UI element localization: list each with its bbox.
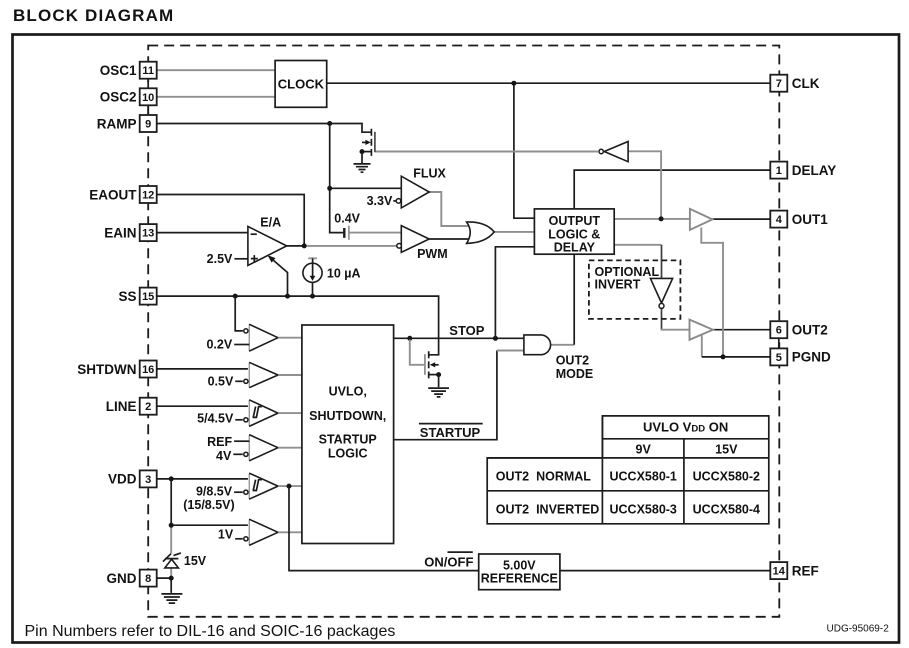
junction PGND node	[721, 354, 726, 359]
junction GND node	[169, 576, 174, 581]
pin 15 SS	[118, 288, 156, 305]
wire OUTPUT LOGIC block bottom to AND output	[573, 254, 575, 344]
svg-text:OUT2 NORMAL: OUT2 NORMAL	[496, 469, 592, 483]
pin 7 CLK	[770, 75, 819, 92]
svg-text:12: 12	[142, 190, 154, 202]
pin 4 OUT1	[770, 211, 828, 228]
svg-text:STARTUP: STARTUP	[319, 433, 377, 447]
node STARTUP label (active low)	[419, 424, 483, 440]
svg-text:EAIN: EAIN	[104, 225, 136, 240]
svg-text:SHUTDOWN,: SHUTDOWN,	[309, 409, 386, 423]
wire OUTPUT LOGIC block to optional inverter	[614, 244, 661, 246]
svg-text:UVLO,: UVLO,	[329, 385, 367, 399]
svg-text:1: 1	[776, 165, 782, 177]
comparator 0.2V (soft start)	[244, 324, 278, 351]
svg-text:8: 8	[145, 573, 151, 585]
svg-text:OUT1: OUT1	[792, 212, 828, 227]
svg-text:UVLO VDD ON: UVLO VDD ON	[643, 420, 728, 435]
junction SS to 0.2V comparator	[233, 294, 238, 299]
svg-text:2.5V: 2.5V	[207, 252, 233, 266]
wire OSC1 to CLOCK	[157, 69, 276, 71]
svg-text:10: 10	[142, 92, 154, 104]
junction RAMP node	[327, 121, 332, 126]
transistor M2 (soft-start discharge MOSFET)	[425, 351, 441, 387]
svg-text:4: 4	[776, 214, 783, 226]
pin 10 OSC2	[100, 88, 157, 105]
svg-text:OSC2: OSC2	[100, 90, 137, 105]
svg-text:UCCX580-1: UCCX580-1	[610, 469, 677, 483]
inverter U2 (delay inverter)	[599, 142, 628, 162]
wire inverter input from OUT1 line	[628, 151, 661, 219]
junction VDD node	[169, 476, 174, 481]
svg-text:0.5V: 0.5V	[208, 375, 234, 389]
svg-text:9V: 9V	[636, 443, 652, 457]
wire OUT2 buffer return to PGND	[701, 335, 703, 357]
junction VDD to 1V comparator	[169, 523, 174, 528]
wire LINE pin to 5/4.5V comparator	[157, 405, 248, 407]
svg-text:5/4.5V: 5/4.5V	[197, 412, 234, 426]
UVLO SHUTDOWN STARTUP LOGIC block	[302, 325, 394, 544]
wire OR gate output to OUTPUT LOGIC block	[494, 231, 534, 233]
svg-text:MODE: MODE	[556, 367, 594, 381]
value label 1V	[218, 528, 243, 542]
svg-text:OUT2: OUT2	[556, 353, 589, 367]
svg-text:REFERENCE: REFERENCE	[481, 572, 558, 586]
buffer OUT1 driver	[690, 209, 713, 230]
wire link between pin boxes 11-10-9	[148, 79, 779, 349]
svg-text:(15/8.5V): (15/8.5V)	[183, 498, 234, 512]
svg-text:9: 9	[145, 119, 151, 131]
svg-text:LOGIC: LOGIC	[328, 446, 368, 460]
wire M2 gate from STOP	[410, 340, 424, 365]
wire EAOUT pin to E/A output node	[157, 195, 305, 245]
pin 3 VDD	[108, 470, 157, 487]
ground at M2 source	[428, 388, 449, 397]
wire E/A output to PWM comparator - input	[304, 245, 397, 247]
svg-text:FLUX: FLUX	[413, 166, 446, 180]
wire ON/OFF net to 5.00V REFERENCE	[289, 486, 479, 570]
svg-text:EAOUT: EAOUT	[89, 187, 137, 202]
svg-text:ON/OFF: ON/OFF	[424, 555, 473, 570]
svg-text:10 µA: 10 µA	[327, 266, 361, 280]
AND gate OUT2 MODE	[524, 335, 593, 381]
svg-text:UDG-95069-2: UDG-95069-2	[827, 624, 890, 635]
wire CLK net: CLOCK output to pin 7	[327, 82, 770, 84]
svg-text:CLK: CLK	[792, 76, 820, 91]
wire OUT2 buffer output to pin 6	[713, 329, 770, 331]
svg-text:0.4V: 0.4V	[334, 212, 360, 226]
pin 14 REF	[770, 562, 819, 579]
wire AND gate lower input stub	[497, 350, 524, 352]
svg-text:UCCX580-3: UCCX580-3	[610, 502, 677, 516]
svg-text:15: 15	[142, 291, 154, 303]
transistor M1 (ramp discharge MOSFET)	[360, 129, 375, 163]
wire RAMP branch to FLUX comparator + input	[330, 187, 401, 189]
svg-text:REF: REF	[792, 563, 819, 578]
wire STOP net	[394, 337, 524, 339]
svg-text:CLOCK: CLOCK	[278, 77, 325, 92]
junction STOP to OUTPUT LOGIC	[493, 336, 498, 341]
wire VDD pin to 9/8.5V comparator	[158, 478, 248, 480]
ground at M1 source	[354, 164, 371, 172]
svg-text:OSC1: OSC1	[100, 63, 137, 78]
node ON/OFF label (OFF active low)	[424, 552, 473, 570]
junction 9/8.5V comparator output to ON/OFF	[287, 484, 292, 489]
svg-text:DELAY: DELAY	[792, 163, 837, 178]
svg-text:STOP: STOP	[449, 323, 484, 338]
OPTIONAL INVERT block (dashed)	[589, 260, 681, 319]
wire SS branch to 0.2V comparator inverting input	[235, 296, 243, 331]
svg-text:6: 6	[776, 325, 782, 337]
part number table	[487, 416, 769, 524]
svg-text:9/8.5V: 9/8.5V	[196, 485, 233, 499]
svg-text:14: 14	[773, 566, 786, 578]
pin 1 DELAY	[770, 162, 836, 179]
wire current source to SS line	[312, 283, 314, 297]
svg-text:0.2V: 0.2V	[206, 338, 232, 352]
wire battery to PWM comparator + input	[350, 232, 402, 234]
svg-text:SHTDWN: SHTDWN	[77, 362, 136, 377]
wire OUT1 buffer output to pin 4	[712, 218, 770, 220]
op-amp E/A (error amplifier)	[248, 216, 287, 266]
wire GND pin to ground	[158, 578, 172, 593]
junction STOP to M2 gate	[407, 336, 412, 341]
pin 6 OUT2	[770, 321, 828, 338]
comparator 5/4.5V (line sense, hysteresis)	[244, 400, 278, 427]
pin 12 EAOUT	[89, 186, 156, 203]
wire comparator outputs to UVLO block	[278, 338, 302, 533]
svg-text:16: 16	[142, 364, 154, 376]
wire E/A adjust arrow from SS	[274, 260, 288, 296]
svg-text:E/A: E/A	[260, 216, 281, 230]
value label 0.2V	[206, 338, 249, 352]
zener diode 15V (VDD clamp)	[163, 553, 181, 568]
comparator PWM	[397, 226, 448, 261]
svg-text:PGND: PGND	[792, 350, 831, 365]
junction CLK branch	[511, 81, 516, 86]
IC boundary (dashed)	[148, 46, 779, 617]
svg-text:INVERT: INVERT	[595, 278, 641, 292]
wire AND gate output to OUTPUT LOGIC block	[550, 344, 574, 346]
pin 5 PGND	[770, 348, 831, 365]
comparator 0.5V (shutdown)	[244, 362, 278, 387]
svg-text:3: 3	[145, 474, 151, 486]
svg-text:Pin Numbers refer to DIL-16 an: Pin Numbers refer to DIL-16 and SOIC-16 …	[25, 623, 396, 640]
wire EAIN pin to E/A inverting input	[157, 232, 248, 234]
wire OSC2 to CLOCK	[157, 96, 276, 98]
junction OUT1 logic line to inverter	[659, 216, 664, 221]
svg-text:5: 5	[776, 352, 782, 364]
svg-text:UCCX580-4: UCCX580-4	[693, 502, 760, 516]
wire PGND net to pin 5	[702, 356, 771, 358]
wire FLUX comparator output to OR gate	[429, 192, 470, 226]
svg-text:LINE: LINE	[106, 399, 137, 414]
svg-text:OUT2: OUT2	[792, 323, 828, 338]
svg-text:RAMP: RAMP	[97, 116, 137, 131]
svg-text:2: 2	[145, 401, 151, 413]
svg-text:15V: 15V	[184, 554, 207, 568]
svg-text:VDD: VDD	[108, 472, 137, 487]
svg-text:OUT2 INVERTED: OUT2 INVERTED	[496, 502, 600, 516]
svg-text:4V: 4V	[216, 449, 232, 463]
pin 8 GND	[107, 570, 157, 587]
svg-text:13: 13	[142, 228, 154, 240]
5.00V REFERENCE block	[479, 554, 560, 590]
pin 16 SHTDWN	[77, 361, 156, 378]
pin 9 RAMP	[97, 115, 157, 132]
wire 5.00V REFERENCE to REF pin 14	[560, 570, 770, 572]
svg-text:3.3V: 3.3V	[367, 194, 393, 208]
comparator 4V (REF good)	[244, 435, 278, 461]
comparator 9/8.5V (UVLO, hysteresis)	[244, 473, 278, 499]
wire PWM comparator output to OR gate	[429, 238, 471, 240]
svg-text:DELAY: DELAY	[554, 240, 596, 254]
wire inverter output to M1 gate	[375, 151, 598, 153]
svg-text:LOGIC &: LOGIC &	[548, 227, 600, 241]
value label 9/8.5V	[196, 485, 243, 499]
wire E/A output	[287, 245, 305, 247]
wire RAMP pin to M1 drain	[157, 124, 371, 133]
wire optional inverter to OUT2 buffer	[661, 309, 663, 330]
junction SS to E/A arrow	[285, 294, 290, 299]
CLOCK block	[275, 61, 327, 108]
wire STARTUP net from UVLO block to AND gate	[394, 351, 497, 440]
junction E/A output node	[302, 243, 307, 248]
OUTPUT LOGIC & DELAY block	[534, 209, 614, 254]
wire SS pin to M2 drain	[157, 296, 439, 355]
value label 4V	[216, 449, 243, 463]
pin 11 OSC1	[100, 62, 157, 79]
svg-text:5.00V: 5.00V	[503, 558, 536, 572]
wire VDD branch to 1V comparator	[171, 524, 248, 526]
comparator FLUX	[396, 166, 446, 208]
svg-text:15V: 15V	[715, 443, 738, 457]
wire DELAY pin to OUTPUT LOGIC block	[574, 170, 770, 209]
OR gate U3	[467, 222, 495, 243]
wire SHTDWN pin to 0.5V comparator	[157, 368, 248, 370]
junction SS to current source	[310, 294, 315, 299]
comparator 1V (VDD low)	[244, 519, 278, 545]
wire OUTPUT LOGIC block to OUT1 buffer	[614, 218, 690, 220]
current source 10uA	[303, 258, 322, 282]
wire STOP branch up to OUTPUT LOGIC block	[495, 247, 534, 338]
value label 5/4.5V	[197, 412, 243, 426]
svg-text:GND: GND	[107, 571, 137, 586]
battery 0.4V offset	[344, 226, 349, 240]
value label 0.5V	[208, 375, 243, 389]
value label 2.5V	[207, 252, 248, 266]
pin 13 EAIN	[104, 224, 156, 241]
svg-text:BLOCK DIAGRAM: BLOCK DIAGRAM	[13, 6, 174, 25]
pin 2 LINE	[106, 398, 157, 415]
svg-text:UCCX580-2: UCCX580-2	[693, 469, 760, 483]
svg-text:STARTUP: STARTUP	[420, 425, 481, 440]
wire CLK branch down to OUTPUT LOGIC block	[514, 83, 534, 218]
value label 3.3V	[367, 194, 396, 208]
svg-text:REF: REF	[207, 435, 232, 449]
wire OUT1 buffer return to PGND	[701, 228, 723, 356]
junction RAMP/FLUX branch	[327, 186, 332, 191]
wire RAMP down to 0.4V battery	[330, 124, 344, 233]
svg-text:PWM: PWM	[417, 247, 448, 261]
buffer OUT2 driver	[690, 320, 713, 340]
value label REF	[207, 435, 249, 449]
svg-text:11: 11	[142, 65, 154, 77]
svg-text:SS: SS	[118, 289, 136, 304]
wire VDD down to zener	[170, 479, 172, 525]
ground at GND pin	[161, 594, 182, 603]
wire zener anode to GND node	[170, 567, 172, 578]
svg-text:1V: 1V	[218, 528, 234, 542]
svg-text:7: 7	[776, 78, 782, 90]
svg-text:OUTPUT: OUTPUT	[549, 214, 601, 228]
